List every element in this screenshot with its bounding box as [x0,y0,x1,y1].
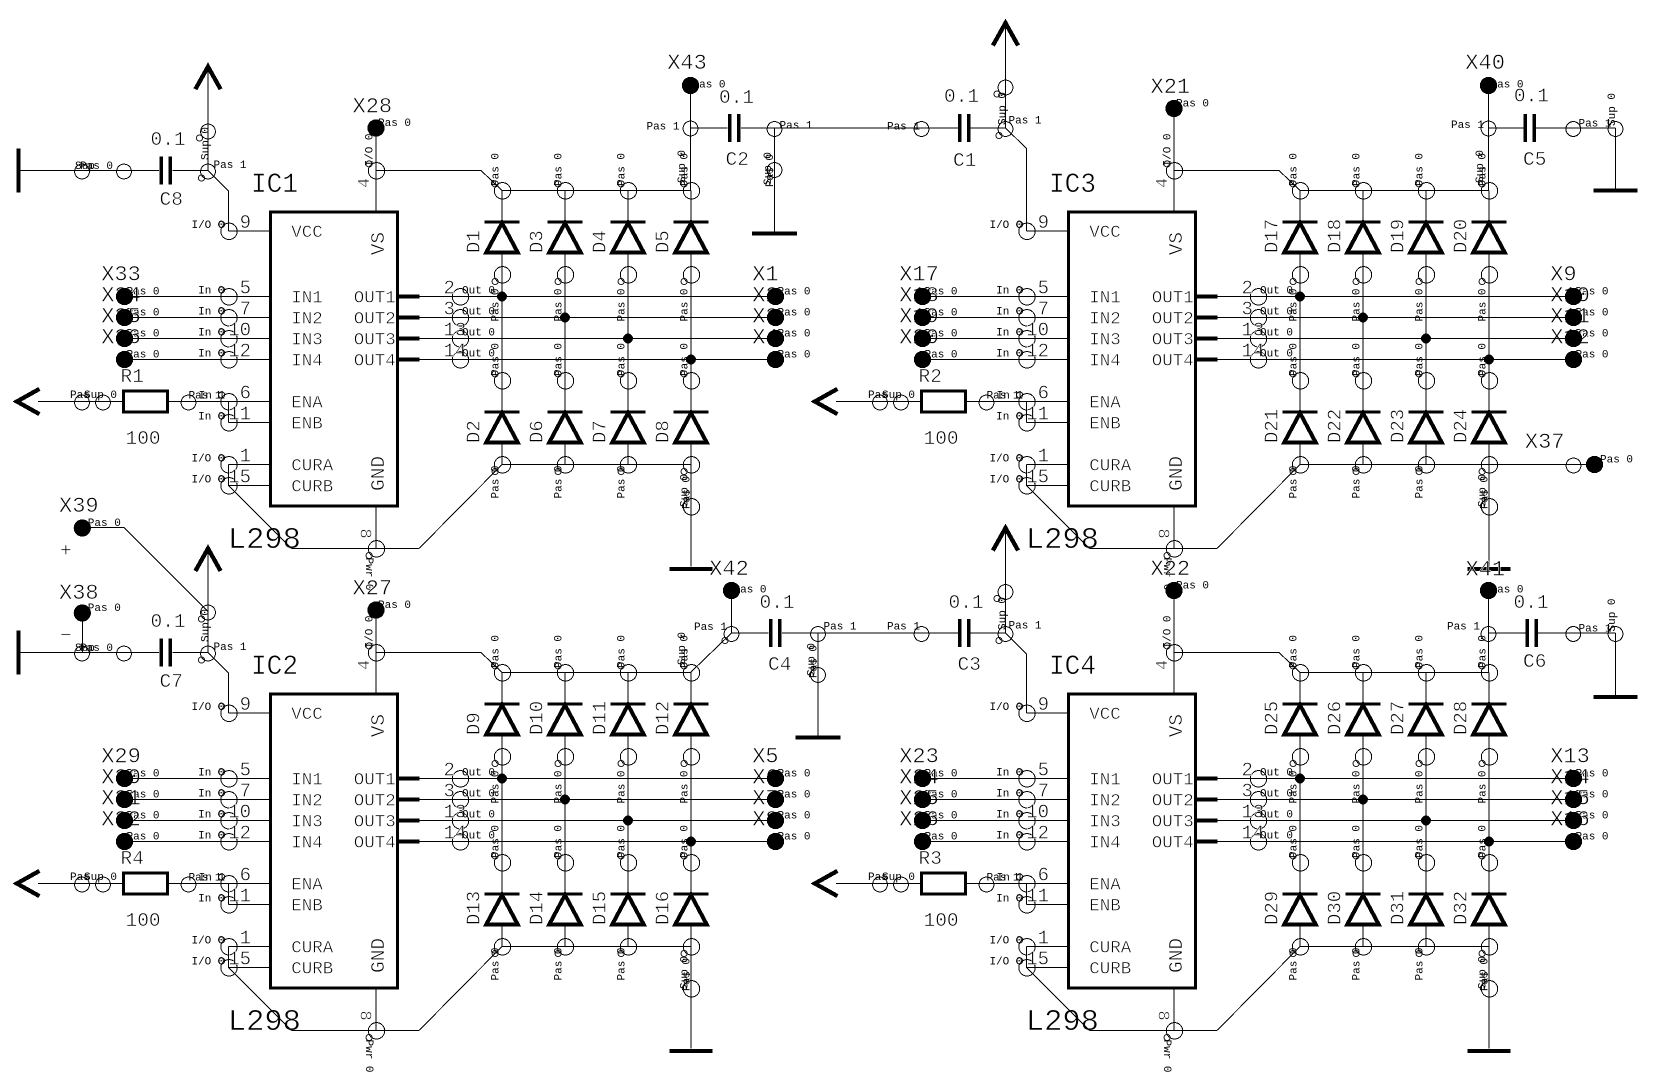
svg-text:I/O 0: I/O 0 [1163,133,1175,166]
connector X3 pad [767,330,784,347]
svg-text:C4: C4 [768,654,791,676]
svg-text:15: 15 [1026,467,1049,489]
svg-text:3: 3 [444,299,455,321]
wire X40 to C5 [1489,127,1524,129]
IC IC1 L298 body [271,212,398,506]
wire VS to bridge top [376,653,502,673]
svg-text:D29: D29 [1262,891,1284,925]
svg-text:+: + [60,540,72,562]
svg-text:0.1: 0.1 [151,611,186,633]
node top of D23 [1415,343,1435,389]
connector X7 label [752,787,810,823]
svg-text:D17: D17 [1262,219,1284,253]
svg-text:In 0: In 0 [198,328,224,340]
wire CURB to GND net [1027,968,1090,1031]
wire to R3 with net arrow [815,871,922,896]
svg-text:IN1: IN1 [1089,289,1121,309]
svg-text:Sup 0: Sup 0 [84,872,117,884]
svg-text:10: 10 [1026,802,1049,824]
node anode of D15 [617,939,637,981]
wire junction to VCC pin 9 IC3 [1006,128,1027,231]
svg-text:C1: C1 [953,150,976,172]
connector X32 label [101,808,159,844]
node top of D2 [491,343,511,389]
wire column 4 [1488,757,1490,863]
svg-text:Sup 0: Sup 0 [1607,93,1619,126]
diode D27 [1388,673,1444,757]
svg-text:15: 15 [228,467,251,489]
svg-text:D16: D16 [653,891,675,925]
svg-text:Pas 1: Pas 1 [214,160,247,172]
connector X7 pad [767,812,784,829]
node top of D26 [1352,635,1372,681]
diode D8 [653,381,709,465]
svg-text:D9: D9 [464,712,486,735]
svg-text:12: 12 [1026,341,1049,363]
svg-text:3: 3 [1242,781,1253,803]
connector X36 label [101,326,159,362]
ground under bridge [1468,567,1511,571]
svg-text:CURA: CURA [291,939,334,959]
svg-text:CURB: CURB [1089,478,1131,498]
diode D22 [1325,381,1381,465]
svg-text:9: 9 [240,694,251,716]
svg-text:1: 1 [1038,928,1049,950]
svg-text:In 0: In 0 [198,349,224,361]
IC IC2 pins [189,615,496,1072]
svg-text:D14: D14 [527,891,549,925]
diode D30 [1325,863,1381,947]
connector X19 label [899,305,957,341]
svg-text:I/O 0: I/O 0 [989,702,1022,714]
IC IC3 L298 body [1069,212,1196,506]
node anode of D22 [1352,457,1372,499]
svg-text:D19: D19 [1388,219,1410,253]
svg-text:Pwr 0: Pwr 0 [1160,1040,1172,1073]
connector X18 pad [914,309,931,326]
svg-text:OUT4: OUT4 [354,834,396,854]
connector X9 pad [1565,288,1582,305]
svg-text:Out 0: Out 0 [1260,810,1293,822]
svg-text:In 0: In 0 [996,831,1022,843]
connector X20 label [899,326,957,362]
svg-text:IN3: IN3 [291,813,323,833]
svg-text:D30: D30 [1325,891,1347,925]
connector X25 pad [914,812,931,829]
svg-text:Pas 0: Pas 0 [680,770,692,803]
wire CURB to GND net [1027,486,1090,549]
wire CURA-CURB link [1026,465,1028,486]
node anode of D28 [1478,749,1498,804]
wires X17 inputs to IC3 [931,297,1027,360]
connector X25 label [899,787,957,823]
wire junction to VCC pin 9 IC2 [208,653,229,714]
svg-text:Pas 1: Pas 1 [1451,120,1484,132]
ground under bridge [670,567,713,571]
svg-text:VCC: VCC [291,705,323,725]
svg-text:VCC: VCC [291,223,323,243]
svg-text:Sup 0: Sup 0 [1475,150,1487,183]
svg-text:Pas 0: Pas 0 [680,288,692,321]
svg-text:D24: D24 [1451,409,1473,443]
node top of D27 [1415,635,1435,681]
svg-text:C6: C6 [1523,651,1546,673]
ground mid top [752,231,797,235]
connector X30 label [101,766,159,802]
connector X22 [1151,557,1210,599]
wire C3 to VCC junction IC4 [971,621,1042,644]
svg-text:Pas 0: Pas 0 [1352,465,1364,498]
diode D25 [1262,673,1318,757]
svg-text:Pas 0: Pas 0 [617,635,629,668]
wires IC2 outputs to X5 [461,774,776,847]
svg-text:IC1: IC1 [251,170,298,201]
diode D21 [1262,381,1318,465]
svg-text:Pas 1: Pas 1 [780,121,813,133]
connector X31 pad [116,812,133,829]
svg-text:Out 0: Out 0 [462,810,495,822]
svg-text:X27: X27 [353,577,393,602]
wire bridge to ground [1488,465,1490,567]
svg-text:7: 7 [240,781,251,803]
svg-text:In 0: In 0 [198,789,224,801]
svg-text:IN2: IN2 [1089,792,1121,812]
wire ENA-ENB link [1026,884,1028,905]
node anode of D26 [1352,749,1372,804]
diode D29 [1262,863,1318,947]
wire VS to bridge top [1174,653,1300,673]
wire CURA-CURB link [1026,947,1028,968]
svg-text:5: 5 [240,760,251,782]
connector X8 pad [767,833,784,850]
svg-text:D1: D1 [464,230,486,253]
wire X40 to bridge top [1451,94,1496,191]
svg-text:2: 2 [1242,760,1253,782]
node top of D6 [554,343,574,389]
svg-text:D26: D26 [1325,701,1347,735]
wires X29 inputs to IC2 [133,779,229,842]
svg-text:OUT3: OUT3 [1152,331,1194,351]
ground mid bottom [796,736,841,740]
wire diode bridge bottom bus [1300,464,1489,466]
svg-text:Pas 1: Pas 1 [1009,621,1042,633]
wire CURB to GND net [229,486,292,549]
node anode of D1 [491,267,511,322]
svg-text:In 0: In 0 [996,286,1022,298]
svg-text:In 0: In 0 [996,412,1022,424]
connector X13 label [1550,745,1608,781]
connector X23 pad [914,770,931,787]
svg-text:Pwr 0: Pwr 0 [362,1040,374,1073]
wire R2 to ENA [966,395,1027,410]
IC IC2 L298 body [271,694,398,988]
svg-text:VS: VS [368,232,390,255]
wire C1 to VCC junction IC3 [971,116,1042,139]
svg-text:I/O 0: I/O 0 [191,454,224,466]
node anode of D12 [680,749,700,804]
wire ENA-ENB link [228,402,230,423]
wire rail to C7 [21,643,160,661]
svg-text:IN4: IN4 [1089,834,1121,854]
svg-text:D5: D5 [653,230,675,253]
wires IC3 outputs to X9 [1259,292,1574,365]
svg-text:CURB: CURB [291,478,333,498]
wire bridge to ground [1488,947,1490,1049]
wire column 3 [1425,757,1427,863]
connector X18 label [899,284,957,320]
svg-text:8: 8 [355,529,374,539]
svg-text:D6: D6 [527,420,549,443]
svg-text:C5: C5 [1523,149,1546,171]
node anode of D29 [1289,939,1309,981]
svg-text:9: 9 [1038,212,1049,234]
connector X35 pad [116,330,133,347]
connector X24 label [899,766,957,802]
svg-text:3: 3 [444,781,455,803]
svg-text:D21: D21 [1262,409,1284,443]
svg-text:Sup 0: Sup 0 [1607,598,1619,631]
node top of D17 [1289,153,1309,199]
wire column 2 [1362,275,1364,381]
capacitor C8 0.1 [151,129,186,211]
svg-text:Pas 1: Pas 1 [214,642,247,654]
svg-text:Pas 1: Pas 1 [646,122,679,134]
svg-text:Pas 0: Pas 0 [554,947,566,980]
svg-text:5: 5 [240,278,251,300]
svg-text:GND: GND [1166,456,1188,491]
wire diode bridge top bus [1300,190,1489,192]
svg-text:CURB: CURB [1089,960,1131,980]
wire column 2 [1362,757,1364,863]
wire VS to bridge top [1174,171,1300,191]
svg-text:10: 10 [228,802,251,824]
svg-text:I/O 0: I/O 0 [365,615,377,648]
wire diode bridge bottom bus [502,464,691,466]
svg-text:OUT1: OUT1 [1152,771,1194,791]
svg-text:D8: D8 [653,420,675,443]
svg-text:IN3: IN3 [1089,813,1121,833]
connector X2 pad [767,309,784,326]
svg-text:ENB: ENB [291,897,323,917]
svg-text:−: − [60,625,72,647]
connector X43 [667,51,725,94]
node top of D29 [1289,825,1309,871]
svg-text:C2: C2 [726,149,749,171]
svg-text:Pas 1: Pas 1 [824,622,857,634]
wire X21 to VS [1173,109,1175,171]
svg-text:L298: L298 [1026,523,1099,558]
svg-text:Sup 0: Sup 0 [882,390,915,402]
diode D1 [464,191,520,275]
connector X2 label [752,284,810,320]
wires IC4 outputs to X13 [1259,774,1574,847]
svg-text:IC3: IC3 [1049,170,1096,201]
svg-text:Sup 0: Sup 0 [677,150,689,183]
wire junction to VCC pin 9 IC4 [1006,633,1027,713]
svg-text:In 0: In 0 [198,810,224,822]
svg-text:In 0: In 0 [996,894,1022,906]
svg-text:D31: D31 [1388,891,1410,925]
node anode of D3 [554,267,574,322]
connector X15 pad [1565,812,1582,829]
svg-text:0.1: 0.1 [719,87,754,109]
svg-text:15: 15 [1026,949,1049,971]
svg-text:IN4: IN4 [291,352,323,372]
connector X34 label [101,284,159,320]
svg-text:OUT2: OUT2 [1152,792,1194,812]
svg-text:I/O 0: I/O 0 [365,133,377,166]
node top of D4 [617,153,637,199]
svg-text:Sup 0: Sup 0 [201,127,213,160]
svg-text:I/O 0: I/O 0 [989,220,1022,232]
wire R4 to ENA [168,877,229,892]
ground under bridge [1468,1049,1511,1053]
node top of D16 [680,825,700,871]
svg-text:R2: R2 [919,366,942,388]
svg-text:C7: C7 [160,671,183,693]
capacitor C2 0.1 [719,87,754,171]
wire diode bridge top bus [502,190,691,192]
connector X11 pad [1565,330,1582,347]
node top of D5 [680,153,700,199]
ground right top [1594,189,1638,193]
connector X19 pad [914,330,931,347]
svg-text:D11: D11 [590,701,612,735]
svg-text:IC4: IC4 [1049,652,1096,683]
svg-text:I/O 0: I/O 0 [191,936,224,948]
svg-text:D7: D7 [590,420,612,443]
connector X40 [1465,51,1523,94]
connector X30 pad [116,791,133,808]
node top of D15 [617,825,637,871]
wire junction to VCC pin 9 IC1 [208,171,229,232]
svg-text:I/O 0: I/O 0 [1163,615,1175,648]
connector X24 pad [914,791,931,808]
node top of D22 [1352,343,1372,389]
resistor R2 100 [919,366,966,450]
svg-text:4: 4 [1154,660,1173,670]
svg-text:5: 5 [1038,278,1049,300]
node anode of D18 [1352,267,1372,322]
wire bridge to X37 [1490,458,1595,473]
diode D13 [464,863,520,947]
node anode of D19 [1415,267,1435,322]
svg-text:Pas 1: Pas 1 [887,122,920,134]
node anode of D13 [491,939,511,981]
connector X8 label [752,808,810,844]
diode D6 [527,381,583,465]
connector X27 [353,577,412,619]
supply rail bar left top [17,149,21,193]
svg-text:VCC: VCC [1089,223,1121,243]
svg-text:Pas 1: Pas 1 [1009,116,1042,128]
wire diode bridge top bus [1300,672,1489,674]
node anode of D8 [680,457,700,509]
wire X43 to C2 [691,127,728,129]
svg-text:Pas 0: Pas 0 [1478,770,1490,803]
svg-text:Pas 0: Pas 0 [617,153,629,186]
wire X39 to supply [91,528,215,623]
svg-text:R4: R4 [121,848,144,870]
node top of D12 [680,635,700,681]
diode D12 [653,673,709,757]
svg-text:Pas 0: Pas 0 [617,770,629,803]
svg-text:Pas 0: Pas 0 [1352,153,1364,186]
svg-text:R1: R1 [121,366,144,388]
connector X9 label [1550,263,1608,299]
node top of D14 [554,825,574,871]
svg-text:IN3: IN3 [291,331,323,351]
svg-text:10: 10 [1026,320,1049,342]
diode D32 [1451,863,1507,947]
supply arrow IC2 [195,549,220,653]
svg-text:Sup 0: Sup 0 [882,872,915,884]
node anode of D30 [1352,939,1372,981]
svg-text:0.1: 0.1 [151,129,186,151]
wire column 3 [1425,275,1427,381]
svg-text:I/O 0: I/O 0 [989,957,1022,969]
supply arrow IC4 [993,528,1018,633]
svg-text:Out 0: Out 0 [462,328,495,340]
connector X6 label [752,766,810,802]
svg-text:IN4: IN4 [291,834,323,854]
svg-text:Sup 0: Sup 0 [998,597,1010,630]
node anode of D32 [1478,939,1498,991]
svg-text:IN2: IN2 [1089,310,1121,330]
svg-text:In 0: In 0 [996,349,1022,361]
svg-text:Pas 0: Pas 0 [1600,455,1633,467]
wires IC1 outputs to X1 [461,292,776,365]
svg-text:OUT4: OUT4 [1152,352,1194,372]
svg-text:In 0: In 0 [198,286,224,298]
svg-text:Pas 0: Pas 0 [1415,465,1427,498]
svg-text:0.1: 0.1 [760,592,795,614]
wire rail to C8 [21,161,160,179]
connector X33 label [101,263,159,299]
wire to R4 with net arrow [17,871,124,896]
connector X4 label [752,326,810,362]
svg-text:GND: GND [1166,938,1188,973]
svg-text:2: 2 [444,278,455,300]
svg-text:OUT2: OUT2 [354,792,396,812]
svg-text:IN1: IN1 [1089,771,1121,791]
svg-text:8: 8 [1153,529,1172,539]
wire column 2 [564,275,566,381]
svg-text:In 0: In 0 [198,768,224,780]
svg-text:ENB: ENB [1089,415,1121,435]
svg-text:In 0: In 0 [996,307,1022,319]
node anode of D5 [680,267,700,322]
connector X35 label [101,305,159,341]
node anode of D2 [491,457,511,499]
node anode of D21 [1289,457,1309,499]
connector X5 label [752,745,810,781]
connector X16 pad [1565,833,1582,850]
connector X17 label [899,263,957,299]
svg-text:VCC: VCC [1089,705,1121,725]
wire to R1 with net arrow [17,389,124,414]
wire X22 to VS [1173,591,1175,653]
svg-text:11: 11 [228,886,251,908]
wire GND net [292,465,503,549]
svg-text:11: 11 [1026,886,1049,908]
svg-text:ENA: ENA [291,394,323,414]
svg-text:Pas 0: Pas 0 [88,603,121,615]
wire R1 to ENA [168,395,229,410]
wire X42 down [694,599,739,644]
supply arrow IC1 [195,67,220,171]
svg-text:6: 6 [240,865,251,887]
